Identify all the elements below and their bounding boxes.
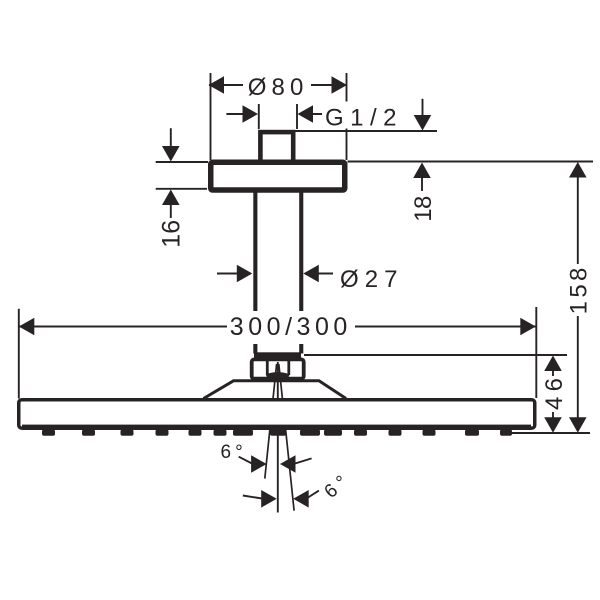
- angle dim upper: right tail: [295, 458, 312, 463]
- angle dim upper: right arrow: [280, 455, 296, 473]
- nut inner left line: [266, 361, 269, 375]
- spray face level line (bottom ref): [512, 432, 590, 434]
- dim 18: down arrow stem: [422, 99, 424, 116]
- dim Ø27: left tail: [217, 273, 243, 275]
- dim 46: up arrow: [544, 356, 562, 372]
- connection nut: [252, 359, 304, 378]
- dim 300/300: arrow right: [520, 318, 536, 336]
- label Ø80: [243, 72, 311, 98]
- flange top level line left: [156, 161, 208, 163]
- dim G1/2: right tail: [312, 113, 332, 115]
- label G1/2: [322, 102, 399, 129]
- dim 158: up arrow: [569, 162, 587, 178]
- nut inner right line: [287, 361, 290, 375]
- angle dim upper: left arrow: [251, 455, 267, 473]
- angle dim lower: right tail: [308, 491, 319, 498]
- dim Ø27: arrow left: [237, 265, 253, 283]
- dim 300/300: arrow left: [19, 318, 35, 336]
- dim 16: down arrow: [162, 146, 180, 162]
- label 46: [544, 376, 564, 412]
- label 300/300: [227, 311, 355, 344]
- dim 158: line upper: [577, 175, 579, 264]
- angle dim lower: left tail: [243, 496, 262, 499]
- shower head body: [19, 400, 535, 428]
- nut top level line (46 ref): [304, 354, 567, 356]
- svg-text:16: 16: [157, 220, 185, 248]
- nozzle teeth row: [42, 430, 512, 436]
- spray angle line left: [265, 364, 277, 479]
- svg-text:Ø27: Ø27: [340, 266, 400, 293]
- ceiling flange plate: [211, 162, 345, 190]
- label 158: [568, 265, 588, 316]
- flange bottom level line left: [156, 188, 207, 190]
- nipple top level line: [296, 130, 438, 132]
- dim 18: up arrow stem: [421, 177, 423, 191]
- nut inner bottom arc: [266, 372, 289, 379]
- dim G1/2: witness left: [258, 104, 260, 129]
- dim G1/2: arrow right: [298, 105, 314, 123]
- svg-text:158: 158: [566, 268, 593, 315]
- dim 46: down arrow: [544, 417, 562, 433]
- dim G1/2: witness right: [296, 104, 298, 129]
- dim 16: down arrow stem: [170, 128, 172, 147]
- dim G1/2: left tail: [226, 113, 244, 115]
- dim Ø80: line: [209, 84, 347, 86]
- spray angle line right: [279, 364, 294, 511]
- dim 158: down arrow: [569, 417, 587, 433]
- dim 46: line upper: [552, 369, 554, 377]
- angle dim lower: left arrow: [261, 490, 277, 508]
- connector nipple G1/2: [260, 132, 293, 162]
- dim 16: up arrow stem: [170, 205, 172, 219]
- dim Ø27: arrow right: [303, 265, 319, 283]
- svg-text:G1/2: G1/2: [325, 105, 399, 132]
- dim Ø27: right tail: [312, 273, 333, 275]
- dim G1/2: arrow left: [243, 105, 259, 123]
- svg-text:18: 18: [410, 196, 437, 222]
- dim Ø80: arrow right: [332, 76, 348, 94]
- flange top level line right: [348, 161, 594, 163]
- dim 18: up arrow: [413, 163, 431, 179]
- dim 46: line lower: [552, 410, 554, 419]
- dim 300/300: witness left: [18, 309, 20, 399]
- spray angle line center: [277, 362, 279, 513]
- label Ø27: [337, 264, 400, 290]
- angle dim upper: left tail: [239, 457, 252, 464]
- dim 18: down arrow: [414, 115, 432, 131]
- dim 158: line lower: [577, 316, 579, 420]
- pipe right wall: [299, 190, 303, 354]
- dim Ø80: witness left: [210, 73, 212, 160]
- dim 16: up arrow: [162, 190, 180, 206]
- pipe left wall: [253, 190, 257, 354]
- dim 300/300: witness right: [535, 307, 537, 398]
- angle dim lower: right arrow: [293, 490, 309, 508]
- mounting cone: [204, 381, 347, 399]
- svg-text:6°: 6°: [221, 442, 247, 463]
- pipe end bar: [254, 352, 301, 358]
- dim Ø80: arrow left: [209, 76, 225, 94]
- svg-text:Ø80: Ø80: [248, 74, 306, 101]
- dim Ø80: witness right: [346, 73, 348, 160]
- shower head face plate band: [22, 425, 531, 430]
- dim 300/300: line: [19, 326, 536, 328]
